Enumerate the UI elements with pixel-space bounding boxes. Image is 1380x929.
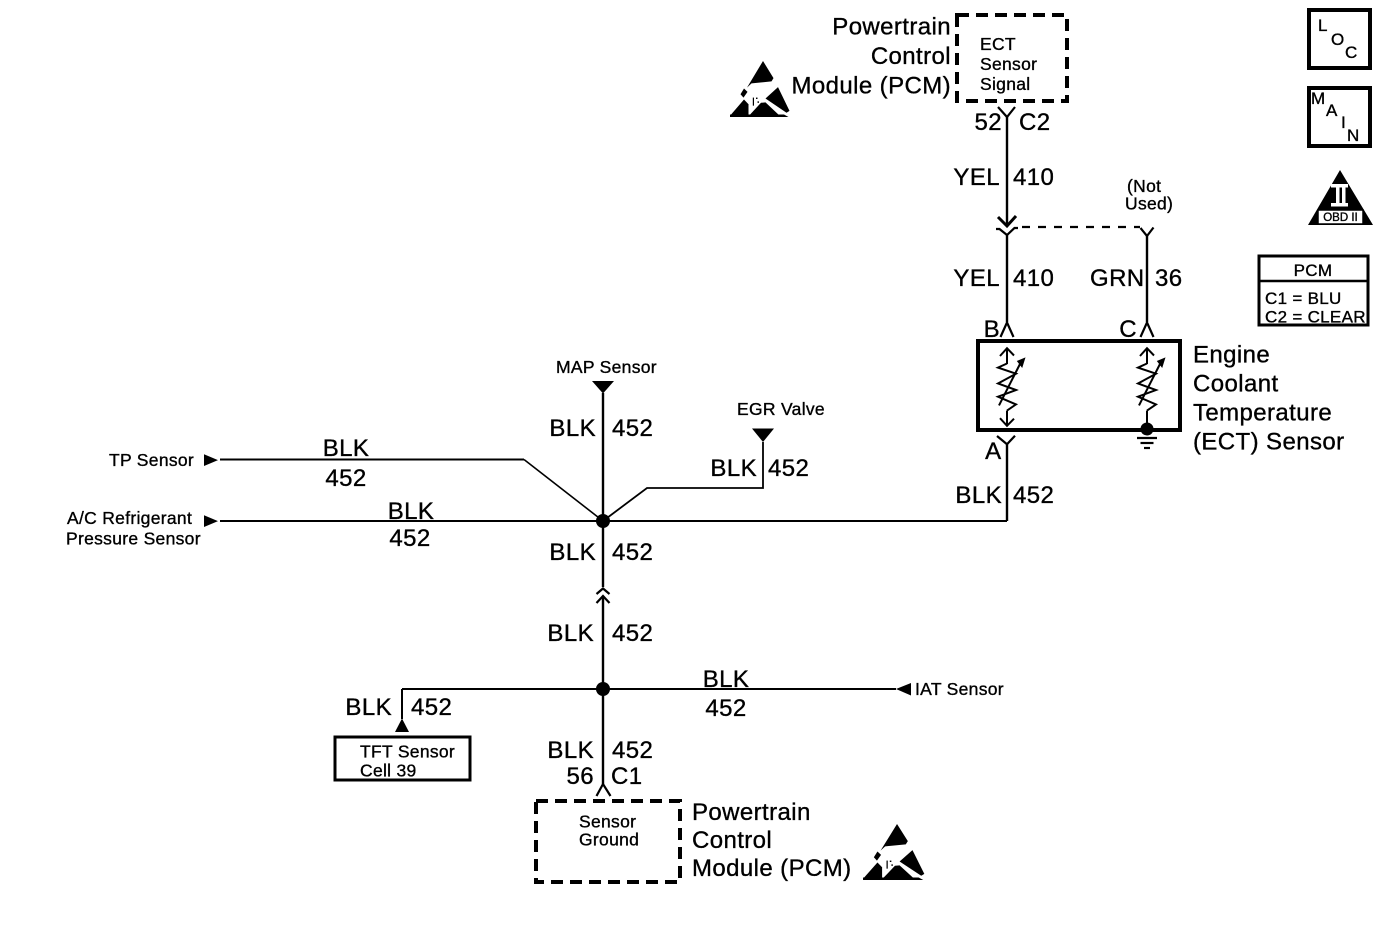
ground: [1137, 438, 1157, 448]
wire YEL 410 upper segment: [1006, 117, 1008, 226]
svg-text:BLK: BLK: [547, 737, 594, 764]
svg-text:N: N: [1347, 126, 1359, 145]
value label YEL 410: [953, 164, 1054, 191]
svg-text:GRN: GRN: [1090, 265, 1145, 292]
value label BLK 452: [710, 455, 809, 482]
svg-text:MAP Sensor: MAP Sensor: [556, 357, 657, 377]
ESD susceptibility symbol bottom: [863, 824, 924, 880]
label Engine Coolant Temperature (ECT) Sensor: [1193, 342, 1345, 456]
svg-text:BLK: BLK: [955, 482, 1002, 509]
svg-text:452: 452: [411, 694, 452, 721]
svg-text:Powertrain: Powertrain: [832, 14, 951, 41]
svg-text:Ground: Ground: [579, 830, 639, 850]
value label BLK 452: [549, 415, 653, 442]
MAIN reference box: [1309, 88, 1370, 146]
svg-text:410: 410: [1013, 164, 1054, 191]
inline connector male half: [998, 216, 1016, 226]
svg-text:56: 56: [567, 763, 595, 790]
svg-text:(ECT) Sensor: (ECT) Sensor: [1193, 429, 1345, 456]
inline connector female half: [996, 228, 1018, 235]
svg-text:C2: C2: [1019, 109, 1050, 136]
svg-text:M: M: [1311, 89, 1325, 108]
ESD susceptibility symbol top: [730, 61, 790, 117]
svg-text:L: L: [1318, 16, 1327, 35]
break connector male half: [597, 596, 610, 603]
svg-text:Engine: Engine: [1193, 342, 1270, 369]
value label BLK 452: [547, 620, 653, 647]
PCM Sensor Ground dashed box: [536, 801, 680, 882]
wire BLK 452 MAP branch: [602, 393, 604, 521]
TFT sensor branch arrow: [395, 719, 409, 733]
svg-text:YEL: YEL: [953, 265, 1000, 292]
svg-text:Signal: Signal: [980, 74, 1030, 94]
svg-text:Cell 39: Cell 39: [360, 761, 417, 781]
svg-text:Coolant: Coolant: [1193, 371, 1279, 398]
MAP sensor branch arrow: [592, 381, 614, 394]
svg-text:C: C: [1119, 316, 1137, 343]
svg-text:C: C: [1345, 43, 1357, 62]
label Powertrain Control Module (PCM) top: [792, 14, 952, 100]
svg-text:452: 452: [612, 737, 653, 764]
wire BLK 452 below center junction: [602, 521, 604, 587]
svg-text:Control: Control: [692, 827, 772, 854]
wire BLK 452 to lower junction: [602, 596, 604, 689]
label A/C Refrigerant Pressure Sensor: [66, 508, 201, 549]
label Sensor Ground: [579, 812, 639, 850]
junction dot at sensor case: [1141, 423, 1154, 436]
A/C sensor branch arrow: [204, 515, 218, 527]
svg-text:Module (PCM): Module (PCM): [792, 73, 952, 100]
TP sensor branch arrow: [204, 454, 218, 466]
svg-text:IAT Sensor: IAT Sensor: [915, 679, 1004, 699]
junction splice center: [596, 514, 610, 528]
svg-text:B: B: [984, 316, 1000, 343]
wire BLK 452 A/C branch to pin A corner: [220, 520, 1007, 522]
svg-text:Used): Used): [1125, 194, 1173, 214]
PCM connector legend box: [1259, 256, 1368, 327]
ECT sensor box: [978, 341, 1180, 430]
label Powertrain Control Module (PCM) bottom: [692, 799, 852, 882]
value label BLK 452: [547, 737, 653, 764]
value label BLK 452: [703, 666, 750, 722]
svg-text:410: 410: [1013, 265, 1054, 292]
wire BLK 452 TP branch: [220, 459, 524, 461]
connector terminal at pin 56 C1: [597, 784, 611, 796]
svg-text:C2 = CLEAR: C2 = CLEAR: [1265, 308, 1366, 327]
svg-text:BLK: BLK: [323, 435, 370, 462]
svg-text:Module (PCM): Module (PCM): [692, 855, 852, 882]
svg-text:A: A: [985, 438, 1001, 465]
EGR valve branch arrow: [752, 429, 774, 443]
value label YEL 410: [953, 265, 1054, 292]
wire TP diagonal to junction: [524, 460, 603, 522]
svg-text:PCM: PCM: [1294, 261, 1333, 280]
svg-text:C1 = BLU: C1 = BLU: [1265, 289, 1342, 308]
svg-text:EGR Valve: EGR Valve: [737, 399, 825, 419]
svg-text:A: A: [1326, 101, 1338, 120]
svg-text:BLK: BLK: [388, 498, 435, 525]
wire BLK 452 TFT branch horizontal: [402, 688, 603, 690]
LOC reference box: [1309, 10, 1370, 68]
svg-text:BLK: BLK: [549, 415, 596, 442]
value label BLK 452: [345, 694, 452, 721]
wire TFT branch vertical: [401, 689, 403, 719]
svg-text:TP Sensor: TP Sensor: [109, 450, 194, 470]
connector terminal at pin 52 C2: [998, 107, 1015, 117]
wire BLK 452 from pin A: [1006, 444, 1008, 521]
value label BLK 452: [388, 498, 435, 552]
label ECT Sensor Signal: [980, 34, 1037, 94]
svg-text:Pressure Sensor: Pressure Sensor: [66, 529, 201, 549]
wire BLK 452 EGR branch: [603, 442, 763, 521]
value label BLK 452: [955, 482, 1054, 509]
thermistor left (B to A): [998, 348, 1026, 426]
svg-text:452: 452: [612, 415, 653, 442]
svg-text:Powertrain: Powertrain: [692, 799, 811, 826]
svg-text:452: 452: [325, 465, 366, 492]
connector terminal at pin A: [997, 436, 1015, 444]
svg-text:ECT: ECT: [980, 34, 1016, 54]
wire BLK 452 to PCM pin 56: [602, 689, 604, 784]
svg-text:Sensor: Sensor: [579, 812, 636, 832]
svg-text:C1: C1: [611, 763, 642, 790]
dashed wire to unused terminal: [1022, 226, 1140, 228]
junction splice lower: [596, 682, 610, 696]
PCM ECT Sensor Signal dashed box: [957, 15, 1067, 101]
value label BLK 452: [323, 435, 370, 492]
connector terminal at pin C: [1141, 323, 1154, 338]
value label BLK 452: [549, 539, 653, 566]
svg-text:YEL: YEL: [953, 164, 1000, 191]
svg-text:OBD II: OBD II: [1323, 212, 1358, 224]
OBD II symbol: [1308, 170, 1373, 225]
label TFT Sensor Cell 39: [360, 742, 455, 781]
svg-text:452: 452: [705, 695, 746, 722]
svg-text:452: 452: [1013, 482, 1054, 509]
svg-text:TFT Sensor: TFT Sensor: [360, 742, 455, 762]
svg-text:Temperature: Temperature: [1193, 400, 1332, 427]
TFT Sensor Cell 39 box: [335, 737, 470, 780]
svg-text:O: O: [1331, 30, 1344, 49]
svg-text:BLK: BLK: [547, 620, 594, 647]
svg-text:BLK: BLK: [549, 539, 596, 566]
svg-text:452: 452: [768, 455, 809, 482]
connector terminal at pin B: [1001, 323, 1014, 338]
IAT sensor branch arrow: [896, 683, 911, 696]
wire GRN 36: [1146, 236, 1148, 322]
svg-text:52: 52: [975, 109, 1003, 136]
thermistor right (C to ground): [1138, 348, 1166, 429]
svg-text:452: 452: [612, 539, 653, 566]
connector terminal at unused branch: [1141, 228, 1154, 237]
svg-text:452: 452: [389, 525, 430, 552]
label (Not Used): [1125, 176, 1173, 214]
svg-text:BLK: BLK: [345, 694, 392, 721]
svg-text:BLK: BLK: [710, 455, 757, 482]
svg-text:Control: Control: [871, 43, 951, 70]
wire YEL 410 lower segment: [1006, 234, 1008, 322]
wire BLK 452 IAT branch: [603, 688, 896, 690]
svg-text:A/C Refrigerant: A/C Refrigerant: [67, 508, 192, 528]
svg-text:BLK: BLK: [703, 666, 750, 693]
break connector female half: [597, 589, 610, 595]
value label GRN 36: [1090, 265, 1183, 292]
svg-text:Sensor: Sensor: [980, 54, 1037, 74]
svg-text:452: 452: [612, 620, 653, 647]
svg-text:36: 36: [1155, 265, 1183, 292]
svg-text:I: I: [1341, 113, 1346, 132]
